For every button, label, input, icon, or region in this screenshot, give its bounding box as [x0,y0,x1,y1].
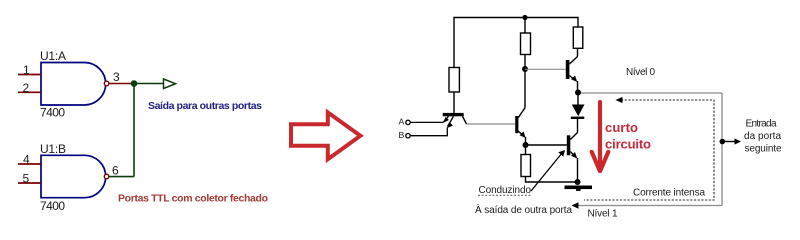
wire Q1 collector to Q2 base [467,123,516,125]
input B terminal circle [406,134,410,138]
node top rail junction [522,15,527,20]
Q1 collector diagonal [463,116,467,124]
resistor R3 [521,155,531,177]
svg-text:4: 4 [23,152,30,166]
dashed underline of Conduzindo [478,194,531,196]
input A terminal circle [406,120,410,124]
svg-text:da porta: da porta [744,131,781,142]
transistor Q2 (phase splitter) base bar [515,116,518,133]
svg-text:circuito: circuito [605,137,651,152]
wire Q4 collector to R4 [577,48,579,57]
svg-text:2: 2 [23,81,30,95]
svg-text:Portas TTL com coletor fechado: Portas TTL com coletor fechado [118,192,268,204]
dashed feedback path with arrowhead [584,100,714,200]
U1:B output bubble [104,174,109,179]
node Q2 collector / Q4 base [522,66,528,72]
wire Q2 emitter to node [525,137,527,145]
svg-text:1: 1 [23,63,30,77]
transistor Q1 (multi-emitter input) base bar [443,113,464,116]
wire green vertical joining both outputs [133,84,135,177]
wire pin 6 (U1:B output) [109,176,134,178]
NAND gate U1:B body [41,155,106,197]
Q1 emitter 1 arrowhead [443,117,449,123]
Q4 emitter diagonal [569,76,575,81]
wire input B [411,128,448,136]
wire diode cathode to Q3 collector [577,119,579,133]
wire pin 2 (U1:A input) [18,91,41,93]
wire pin 5 (U1:B input) [18,182,41,184]
Q2 emitter diagonal [518,131,525,137]
wire Q2 collector up through node to R2 [524,55,526,108]
Q1 emitter 1 diagonal [444,116,449,122]
wire Q3 emitter to ground node [577,158,579,182]
transistor Q3 (output) base bar [567,135,571,155]
ground symbol [565,186,593,190]
diode D1 anode wire [577,93,579,105]
svg-text:U1:B: U1:B [40,142,66,156]
transistor Q4 base bar [566,60,570,79]
wire branch arrow to Entrada label [722,141,736,143]
svg-text:U1:A: U1:A [40,49,66,63]
pointer line Conduzindo to Q3 [531,153,563,192]
svg-text:seguinte: seguinte [745,144,782,155]
wire Vcc top rail [454,18,578,68]
wire Q4 emitter to node [577,81,579,93]
svg-text:Corrente intensa: Corrente intensa [633,187,705,198]
node branch to next gate input [720,139,726,145]
red short-circuit arrow [592,102,609,171]
svg-text:5: 5 [23,172,30,186]
arrowhead pointing right at Entrada [735,138,742,144]
wire output loop top (gray) [581,92,722,94]
Q4 emitter arrowhead [571,76,577,83]
wire Q2 emitter node to Q3 base [526,144,567,146]
Q2 collector diagonal [518,108,525,119]
wire R2 to rail [524,18,526,34]
wire node to R3 [525,145,527,155]
svg-text:À saída de outra porta: À saída de outra porta [475,203,572,216]
svg-text:B: B [399,130,405,140]
diode D1 triangle [572,105,585,117]
diode D1 cathode bar [571,117,585,119]
Q3 emitter diagonal [570,152,575,158]
wire pin 4 (U1:B input) [18,163,41,165]
Q2 emitter arrowhead [520,132,526,139]
wire R3 to ground node [526,177,578,183]
big red arrow [291,112,360,159]
svg-text:Conduzindo: Conduzindo [479,185,532,196]
NAND gate U1:A body [41,63,106,106]
svg-text:7400: 7400 [40,199,65,213]
node junction of gate outputs [131,80,138,87]
Q1 emitter 2 diagonal [448,116,454,126]
svg-text:Nível 1: Nível 1 [588,209,618,220]
node Q2 emitter junction [523,142,529,148]
wire R1 to Q1 base [453,92,455,113]
svg-text:6: 6 [112,164,119,178]
svg-text:Entrada: Entrada [746,119,777,130]
resistor R4 [573,27,583,48]
Q4 collector diagonal [569,57,577,65]
node Q4 emitter / diode anode [575,90,581,96]
svg-text:curto: curto [605,120,638,135]
wire output loop bottom (gray) [575,205,722,207]
output arrow symbol [164,79,176,89]
U1:A output bubble [104,81,109,86]
wire pin 1 (U1:A input) [18,74,41,76]
Q3 emitter arrowhead [571,152,577,159]
wire output loop right vertical (gray) [721,93,723,206]
arrowhead at bottom wire pointing left [572,202,579,208]
resistor R2 [521,33,531,55]
wire Q4 base (gray) [525,68,566,70]
svg-text:7400: 7400 [40,106,65,120]
resistor R1 [449,68,459,93]
wire green horizontal to output arrow [131,83,164,85]
node ground junction [575,179,581,185]
svg-text:Nível 0: Nível 0 [626,67,655,78]
wire pin 3 (U1:A output) [109,83,131,85]
svg-text:A: A [399,117,405,127]
wire input A [411,121,444,123]
Q1 emitter 2 arrowhead [447,122,453,128]
Q3 collector diagonal [570,133,577,140]
svg-text:3: 3 [113,70,120,84]
svg-text:Saída para outras portas: Saída para outras portas [148,100,262,112]
pointer arrowhead [558,150,565,157]
